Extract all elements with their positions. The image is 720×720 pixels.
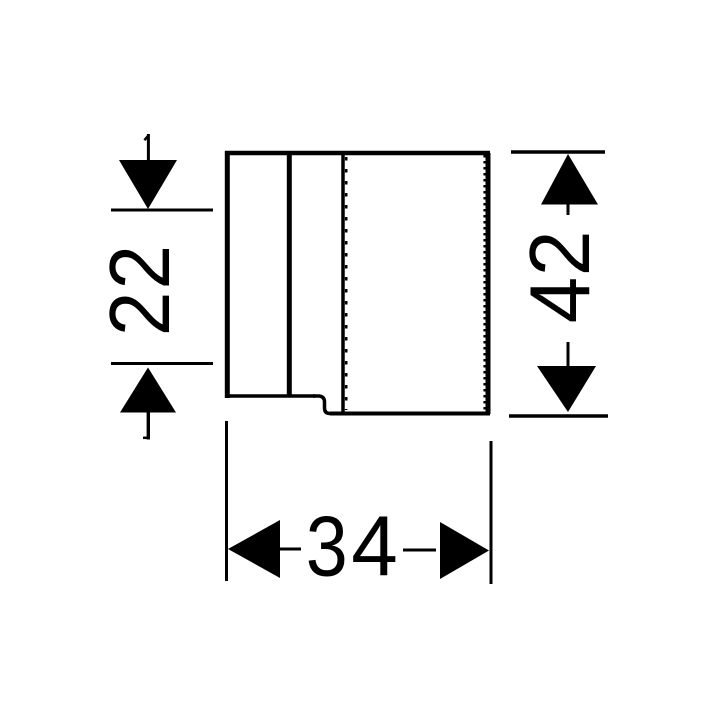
svg-text:3: 3: [306, 499, 348, 594]
svg-text:2: 2: [512, 230, 607, 276]
svg-text:4: 4: [351, 499, 398, 594]
svg-text:4: 4: [513, 277, 608, 324]
svg-text:2: 2: [93, 245, 188, 289]
svg-text:2: 2: [93, 292, 188, 336]
